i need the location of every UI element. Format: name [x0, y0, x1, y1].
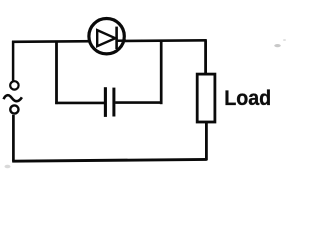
svg-text:Load: Load — [224, 85, 271, 110]
